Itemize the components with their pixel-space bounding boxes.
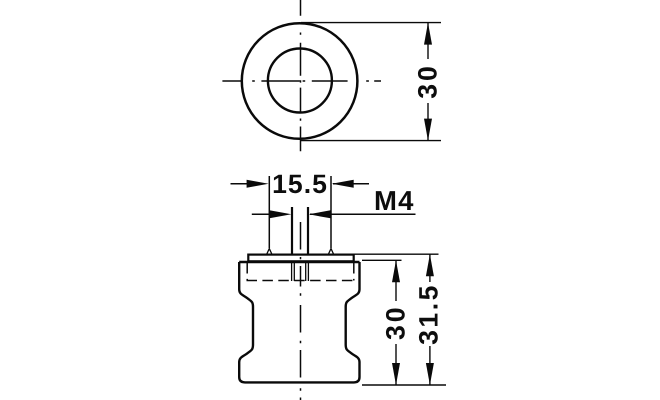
- label 30 (top view): [413, 63, 443, 99]
- outer circle D30: [242, 23, 358, 139]
- extension line 31.5 top: [354, 253, 439, 255]
- arrowhead right (M4 left): [269, 210, 291, 218]
- svg-text:30: 30: [413, 63, 443, 99]
- label 31.5: [413, 283, 443, 345]
- wire: [222, 0, 441, 151]
- stud M4 right edge: [307, 207, 309, 254]
- side-view vertical centerline: [300, 222, 302, 400]
- label 30 (side view): [380, 304, 410, 340]
- arrowhead up (30 side): [392, 260, 400, 282]
- dimension line 31.5: [429, 254, 431, 282]
- extension line 30 side top: [362, 259, 402, 261]
- node top-view vertical centerline: [300, 0, 302, 151]
- dim 15.5 left tail: [231, 183, 248, 185]
- extension line bottom shared: [362, 384, 446, 386]
- extension line left (15.5): [268, 176, 270, 248]
- extension line right (15.5): [330, 176, 332, 248]
- arrowhead up (31.5): [426, 254, 434, 276]
- arrowhead down (31.5): [426, 363, 434, 385]
- hidden insert dashed right: [353, 263, 355, 281]
- extension line top of circle: [301, 22, 441, 24]
- arrowhead down (30 side): [392, 363, 400, 385]
- body outline: [239, 262, 359, 382]
- hidden insert dashed bottom: [247, 280, 355, 282]
- hidden insert dashed left: [246, 263, 248, 281]
- inner circle d15.5: [268, 49, 332, 113]
- arrowhead down (top view 30): [424, 119, 432, 141]
- thread hole below plate: [291, 262, 293, 281]
- svg-text:15.5: 15.5: [272, 169, 328, 199]
- top plate: [248, 255, 353, 262]
- dim 15.5 right tail: [333, 183, 369, 185]
- node top-view horizontal centerline: [222, 80, 381, 82]
- stud M4 left edge: [291, 207, 293, 254]
- M4 leader left tail: [252, 213, 270, 215]
- dimension line 30 (top view): [427, 23, 429, 59]
- svg-text:31.5: 31.5: [413, 283, 443, 345]
- arrowhead up (top view 30): [424, 23, 432, 45]
- arrowhead left (M4 right): [309, 210, 331, 218]
- svg-text:M4: M4: [374, 185, 415, 216]
- M4 leader right tail: [310, 213, 416, 215]
- extension line bottom of circle: [301, 140, 441, 142]
- svg-text:30: 30: [380, 304, 410, 340]
- spike right: [329, 249, 334, 254]
- dimension line 30 side: [395, 260, 397, 301]
- spike left: [267, 249, 272, 254]
- arrowhead right (15.5 left): [247, 180, 269, 188]
- arrowhead left (15.5 right): [332, 180, 354, 188]
